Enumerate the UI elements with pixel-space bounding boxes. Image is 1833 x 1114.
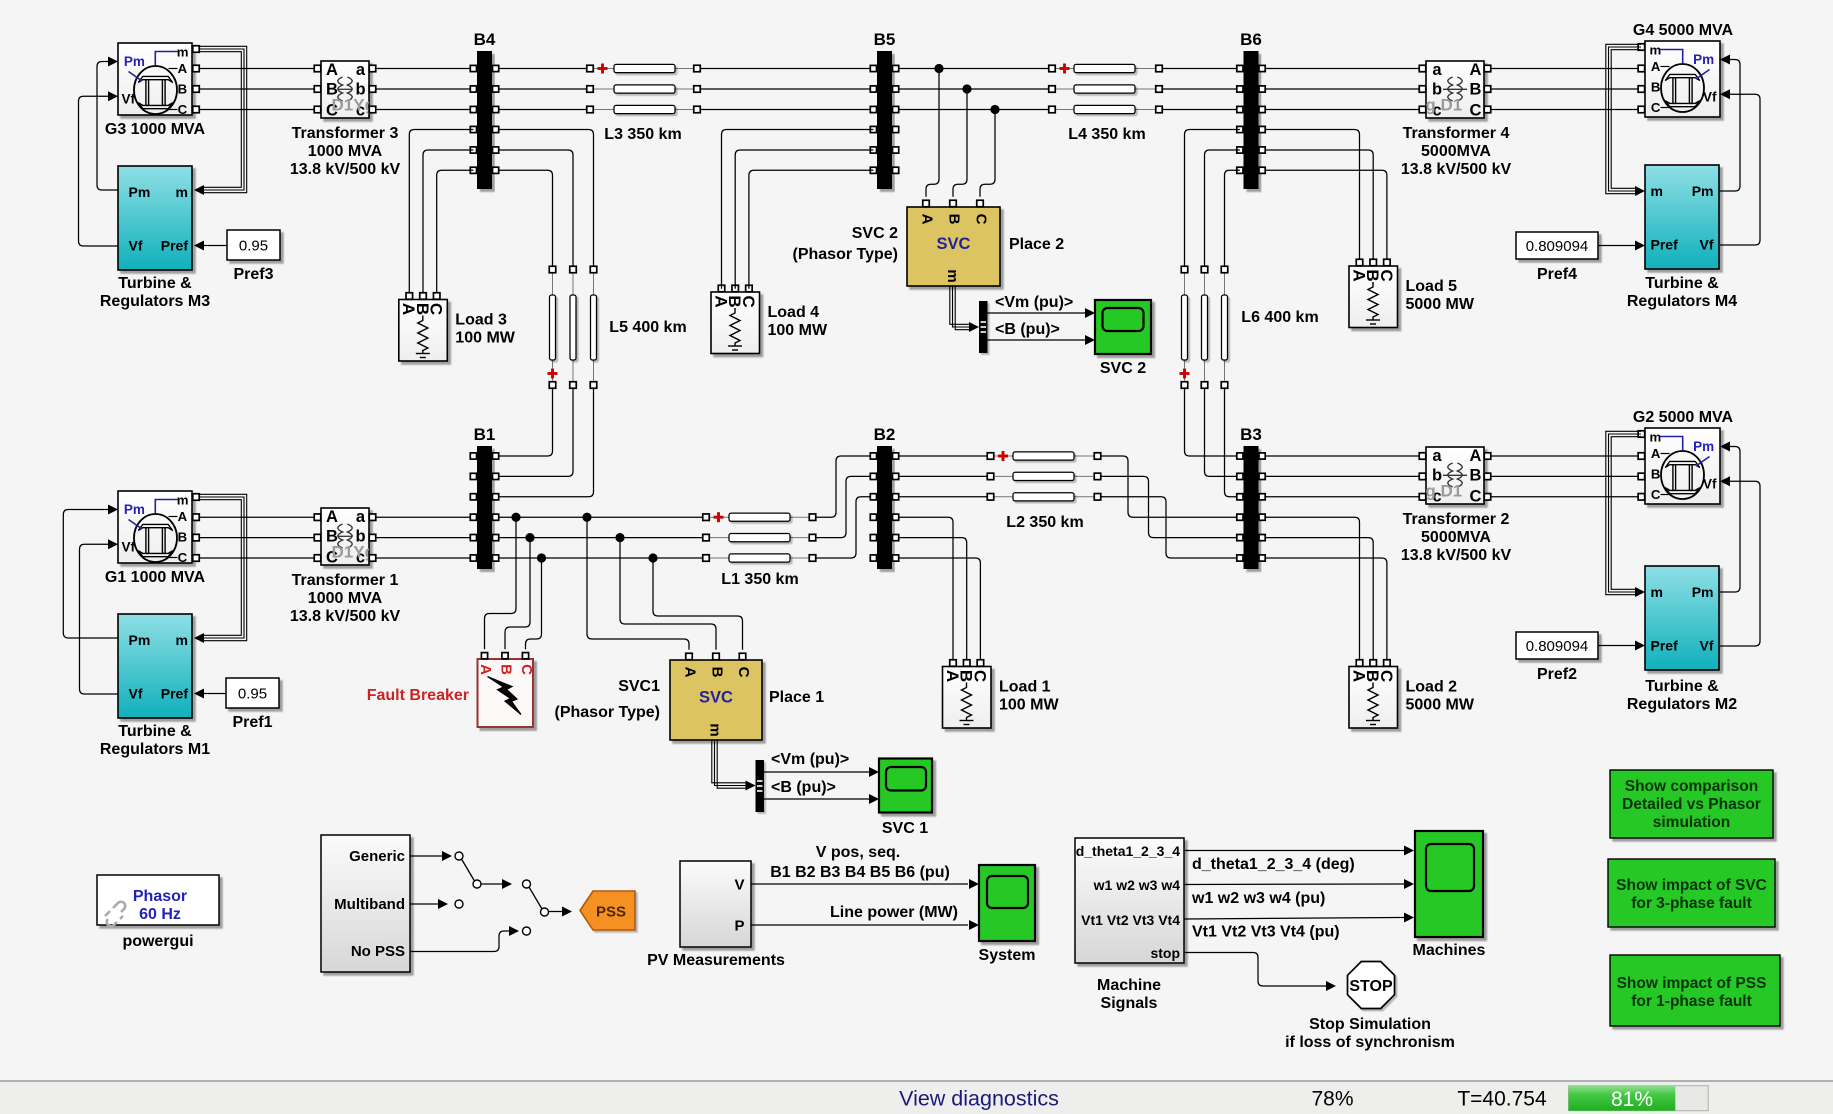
svg-text:B: B	[946, 214, 963, 225]
svg-text:Detailed vs Phasor: Detailed vs Phasor	[1622, 796, 1761, 813]
svg-text:No PSS: No PSS	[351, 943, 405, 960]
svg-text:A: A	[1470, 61, 1482, 79]
wire B3 to Load 2 B	[1265, 538, 1373, 660]
wire B6 to L6 col3	[1225, 170, 1240, 266]
svg-text:A: A	[1470, 447, 1482, 465]
constant Pref3	[227, 230, 280, 283]
generator G3	[118, 43, 192, 117]
svg-text:PSS: PSS	[596, 904, 626, 921]
wire B5 to Load 4 C	[749, 170, 874, 288]
wire selector to scope SVC2 Vm	[988, 312, 1087, 314]
wire B3 to T2 a	[1265, 455, 1419, 457]
svg-text:A: A	[326, 61, 338, 79]
subsystem PV Measurements	[680, 861, 751, 947]
svg-text:Regulators M3: Regulators M3	[100, 293, 210, 310]
svg-text:Regulators M2: Regulators M2	[1627, 696, 1737, 713]
svg-text:B1 B2 B3 B4 B5 B6 (pu): B1 B2 B3 B4 B5 B6 (pu)	[770, 864, 950, 881]
wire G2 m to M2 m (vector)	[1606, 431, 1641, 594]
svg-text:13.8 kV/500 kV: 13.8 kV/500 kV	[1401, 547, 1512, 564]
manual switch 2 lever	[529, 887, 542, 909]
junction SVC2 tap A	[934, 64, 943, 73]
manual switch 1 pole Generic	[455, 852, 463, 860]
bus B3	[1237, 425, 1265, 569]
svg-text:0.809094: 0.809094	[1526, 638, 1589, 655]
wire selector to scope SVC1 B	[764, 798, 870, 800]
wire T1 c to B1	[376, 557, 474, 559]
svg-text:0.809094: 0.809094	[1526, 238, 1589, 255]
wire B4 to Load 3 B	[423, 150, 473, 292]
wire B4 to L5 col2	[499, 150, 573, 266]
svg-text:Load 3: Load 3	[455, 312, 507, 329]
line L3 phase A	[587, 64, 701, 74]
svg-text:Transformer 2: Transformer 2	[1403, 511, 1510, 528]
svg-text:m: m	[944, 269, 961, 282]
wire M3 Pm to G3 Pm	[97, 62, 118, 191]
wire B5 to L4 A	[899, 68, 1049, 70]
svg-text:C: C	[1377, 269, 1396, 281]
wire L2 B to B3	[1101, 476, 1240, 537]
wire G1 m to M1 m (vector)	[199, 494, 247, 640]
wire T1 b to B1	[376, 537, 474, 539]
svg-text:Pref1: Pref1	[232, 714, 272, 731]
svg-text:Signals: Signals	[1101, 995, 1158, 1012]
svg-text:L3 350 km: L3 350 km	[604, 126, 681, 143]
wire L6 col2 to B3	[1205, 389, 1240, 477]
wire L1 C to B2	[816, 497, 874, 558]
wire B5 to Load 4 A	[722, 130, 874, 289]
wire M1 Pm to G1 Pm	[63, 510, 118, 639]
svg-text:A: A	[1651, 446, 1661, 461]
wire Generic out	[410, 855, 443, 857]
subsystem SVC1 (Phasor Type)	[670, 653, 762, 740]
button Show comparison Detailed vs Phasor simulation	[1610, 770, 1773, 838]
wire M4 Vf to G4 Vf	[1720, 94, 1760, 245]
wire L4 A to B6	[1162, 68, 1240, 70]
manual switch 1 pole Multiband	[455, 900, 463, 908]
wire L5 col1 to B1	[499, 389, 553, 457]
svg-text:B2: B2	[874, 425, 896, 444]
svg-text:Vf: Vf	[1703, 477, 1717, 492]
wire Multiband out	[410, 903, 439, 905]
line L5 phase col3	[590, 266, 597, 388]
wire B4 to L5 col3	[499, 130, 594, 267]
svg-text:Pref2: Pref2	[1537, 666, 1577, 683]
transformer Transformer 1	[321, 508, 375, 567]
svg-text:m: m	[1651, 183, 1663, 199]
svg-text:A: A	[682, 667, 699, 678]
wire B2 to L2 B	[899, 475, 988, 477]
svg-text:Multiband: Multiband	[334, 896, 405, 913]
line L1 phase C	[703, 554, 816, 562]
wire selector to scope SVC1 Vm	[764, 771, 870, 773]
svg-text:Turbine &: Turbine &	[118, 723, 192, 740]
wire L2 A to B3	[1101, 456, 1240, 517]
svg-text:G4 5000 MVA: G4 5000 MVA	[1633, 22, 1734, 39]
wire stop to STOP block	[1184, 953, 1327, 987]
svg-text:Vf: Vf	[1700, 237, 1714, 253]
svg-text:L6 400 km: L6 400 km	[1241, 309, 1318, 326]
svg-text:A: A	[178, 509, 188, 524]
wire SVC1 m to selector	[712, 740, 747, 788]
svg-text:Vf: Vf	[129, 686, 143, 702]
wire P to System scope	[751, 924, 968, 926]
progress bar 81%	[1569, 1086, 1709, 1111]
manual switch 2 pole top	[523, 880, 531, 888]
wire B2 to Load 1 B	[899, 538, 967, 660]
junction Fault Breaker tap C	[537, 553, 546, 562]
svg-text:SVC 1: SVC 1	[882, 820, 928, 837]
svg-text:C: C	[1651, 487, 1661, 502]
svg-text:m: m	[176, 632, 188, 648]
wire M2 Pm to G2 Pm	[1720, 447, 1740, 593]
bus B1	[470, 425, 498, 569]
wire B2 to Load 1 C	[899, 558, 981, 660]
svg-text:m: m	[1650, 42, 1662, 57]
junction Fault Breaker tap B	[525, 533, 534, 542]
wire B6 to T4 b	[1265, 88, 1419, 90]
wire B5 to L4 B	[899, 88, 1049, 90]
svg-text:C: C	[178, 550, 188, 565]
svg-text:Load 2: Load 2	[1406, 679, 1458, 696]
load Load 1 100 MW	[943, 660, 1060, 728]
svg-text:<B (pu)>: <B (pu)>	[771, 779, 836, 796]
transformer Transformer 4	[1414, 61, 1484, 120]
wire B6 to L6 col1	[1185, 130, 1240, 267]
svg-text:SVC 2: SVC 2	[1100, 360, 1146, 377]
svg-text:Pref3: Pref3	[233, 266, 273, 283]
wire L6 col3 to B3	[1225, 389, 1240, 497]
wire M4 Pm to G4 Pm	[1720, 60, 1740, 192]
load Load 4 100 MW	[711, 285, 828, 353]
wire T3 b to B4	[376, 88, 474, 90]
svg-text:B: B	[498, 664, 515, 675]
line L3 phase C	[587, 105, 701, 113]
wire B2 to Load 1 A	[899, 517, 953, 660]
svg-text:a: a	[356, 61, 366, 79]
svg-text:5000 MW: 5000 MW	[1406, 697, 1475, 714]
svg-text:A: A	[477, 664, 494, 675]
svg-text:SVC: SVC	[937, 235, 971, 253]
svg-text:C: C	[1377, 670, 1396, 682]
svg-text:m: m	[177, 44, 189, 59]
wire T4 C to G4	[1491, 109, 1642, 111]
svg-text:G3 1000 MVA: G3 1000 MVA	[105, 121, 206, 138]
svg-text:P: P	[734, 918, 744, 935]
bus B6	[1237, 30, 1265, 189]
wire G1 A to T1 A	[199, 516, 314, 518]
svg-text:Show comparison: Show comparison	[1625, 778, 1759, 795]
wire G3 B to T3 B	[199, 88, 314, 90]
wire B1 to L1 A	[499, 516, 703, 518]
svg-text:B: B	[1470, 467, 1482, 485]
svg-text:Place 2: Place 2	[1009, 236, 1064, 253]
wire T2 A to G2	[1491, 455, 1642, 457]
wire T4 A to G4	[1491, 68, 1642, 70]
svg-text:d_theta1_2_3_4: d_theta1_2_3_4	[1076, 843, 1181, 859]
svg-text:if loss of synchronism: if loss of synchronism	[1285, 1034, 1455, 1051]
wire B4 to L3 B	[499, 88, 587, 90]
wire B6 to Load 5 C	[1265, 170, 1387, 259]
subsystem PSS selector (Generic / Multiband / No PSS)	[321, 835, 410, 972]
svg-text:Generic: Generic	[349, 848, 405, 865]
svg-text:G1 1000 MVA: G1 1000 MVA	[105, 569, 206, 586]
svg-text:B: B	[709, 667, 726, 678]
svg-text:w1 w2 w3 w4 (pu): w1 w2 w3 w4 (pu)	[1191, 890, 1325, 907]
svg-text:B: B	[1651, 467, 1661, 482]
svg-text:Turbine &: Turbine &	[118, 275, 192, 292]
junction SVC1 tap A	[582, 513, 591, 522]
line L3 phase B	[587, 85, 701, 93]
wire B6 to Load 5 B	[1265, 150, 1373, 259]
svg-text:Fault Breaker: Fault Breaker	[367, 687, 469, 704]
wire w to Machines scope	[1184, 883, 1404, 886]
wire switch2 to PSS tag	[549, 911, 564, 913]
svg-text:Pm: Pm	[129, 632, 151, 648]
wire G3 A to T3 A	[199, 68, 314, 70]
svg-text:m: m	[176, 184, 188, 200]
subsystem Turbine & Regulators M2	[1645, 566, 1719, 670]
wire B3 to T2 c	[1265, 496, 1419, 498]
wire switch1 to switch2	[481, 883, 503, 885]
load Load 2 5000 MW	[1349, 660, 1475, 728]
svg-text:B: B	[1651, 80, 1661, 95]
wire tap A to SVC2 A	[926, 69, 939, 197]
svg-text:5000MVA: 5000MVA	[1421, 143, 1491, 160]
svg-text:Vf: Vf	[122, 540, 136, 555]
svg-text:13.8 kV/500 kV: 13.8 kV/500 kV	[290, 608, 401, 625]
svg-text:<Vm (pu)>: <Vm (pu)>	[771, 751, 849, 768]
svg-text:C: C	[735, 667, 752, 678]
wire B4 to L5 col1	[499, 170, 553, 266]
status bar	[0, 1081, 1833, 1114]
line L5 phase col2	[570, 266, 577, 388]
svg-text:A: A	[1651, 59, 1661, 74]
svg-text:Transformer 3: Transformer 3	[292, 125, 399, 142]
bus B4	[470, 30, 498, 189]
wire M3 Vf to G3 Vf	[79, 96, 119, 246]
scope System	[979, 865, 1035, 941]
svg-text:m: m	[1650, 429, 1662, 444]
scope SVC 1	[879, 759, 932, 813]
svg-text:m: m	[707, 723, 724, 736]
wire G3 m to M3 m (vector)	[199, 46, 247, 192]
svg-text:C: C	[1651, 100, 1661, 115]
svg-text:100 MW: 100 MW	[999, 697, 1059, 714]
svg-text:Machines: Machines	[1413, 942, 1486, 959]
wire tap B to Fault Breaker B	[505, 538, 530, 650]
wire Vt to Machines scope	[1184, 918, 1404, 920]
wire B4 to Load 3 C	[437, 170, 474, 292]
junction SVC1 tap B	[615, 533, 624, 542]
wire T2 B to G2	[1491, 475, 1642, 477]
svg-text:Load 1: Load 1	[999, 679, 1051, 696]
wire B2 to L2 C	[899, 496, 988, 498]
svg-text:B5: B5	[874, 30, 896, 49]
scope SVC 2	[1095, 300, 1151, 354]
svg-text:Transformer 1: Transformer 1	[292, 572, 399, 589]
svg-text:B4: B4	[474, 30, 496, 49]
svg-text:T=40.754: T=40.754	[1457, 1088, 1547, 1111]
svg-text:Pm: Pm	[129, 184, 151, 200]
svg-text:V: V	[734, 877, 744, 894]
wire B6 to Load 5 A	[1265, 130, 1359, 260]
svg-text:78%: 78%	[1311, 1088, 1353, 1111]
line L2 phase B	[987, 472, 1101, 480]
wire M1 Vf to G1 Vf	[80, 544, 119, 694]
svg-text:Show impact of SVC: Show impact of SVC	[1616, 877, 1767, 894]
svg-text:a: a	[1432, 447, 1442, 465]
wire L4 C to B6	[1162, 109, 1240, 111]
svg-text:5000 MW: 5000 MW	[1406, 296, 1475, 313]
wire B6 to T4 a	[1265, 68, 1419, 70]
wire Pref2 to M2 Pref	[1598, 645, 1636, 647]
svg-text:Pref4: Pref4	[1537, 266, 1577, 283]
stop block STOP	[1348, 962, 1395, 1009]
junction SVC1 tap C	[648, 553, 657, 562]
svg-text:A: A	[326, 508, 338, 526]
line L1 phase B	[703, 534, 816, 542]
generator G2	[1645, 428, 1720, 504]
wire B5 to Load 4 B	[735, 150, 873, 289]
svg-text:Regulators M1: Regulators M1	[100, 741, 210, 758]
wire L1 B to B2	[816, 476, 874, 537]
wire B1 to L1 B	[499, 537, 703, 539]
wire tap B to SVC1 B	[620, 538, 716, 650]
svg-text:C: C	[1470, 488, 1482, 506]
svg-text:Load 4: Load 4	[768, 304, 820, 321]
svg-text:Pm: Pm	[1693, 439, 1714, 454]
breaker Fault Breaker	[477, 653, 535, 727]
svg-text:Vf: Vf	[122, 92, 136, 107]
junction Fault Breaker tap A	[511, 513, 520, 522]
generator G1	[118, 491, 192, 565]
scope Machines	[1415, 831, 1483, 937]
svg-text:C: C	[970, 670, 989, 682]
wire tap C to SVC1 C	[653, 558, 743, 650]
svg-text:B: B	[178, 82, 188, 97]
wire B4 to L3 C	[499, 109, 587, 111]
svg-text:B1: B1	[474, 425, 496, 444]
svg-text:C: C	[427, 303, 446, 315]
wire L6 col1 to B3	[1185, 389, 1240, 457]
svg-text:<Vm (pu)>: <Vm (pu)>	[995, 294, 1073, 311]
bus B5	[870, 30, 898, 189]
line L4 phase C	[1049, 105, 1163, 113]
wire L4 B to B6	[1162, 88, 1240, 90]
wire G4 m to M4 m (vector)	[1606, 44, 1641, 193]
svg-text:100 MW: 100 MW	[455, 330, 515, 347]
wire B4 to Load 3 A	[409, 130, 473, 293]
svg-text:Phasor: Phasor	[133, 888, 187, 905]
manual switch 1 lever	[462, 859, 475, 881]
line L4 phase B	[1049, 85, 1163, 93]
junction SVC2 tap B	[962, 84, 971, 93]
svg-text:C: C	[973, 214, 990, 225]
svg-text:A: A	[919, 214, 936, 225]
svg-text:stop: stop	[1150, 945, 1180, 961]
svg-text:Pm: Pm	[1692, 584, 1714, 600]
wire G3 C to T3 C	[199, 109, 314, 111]
subsystem Turbine & Regulators M4	[1645, 165, 1719, 269]
constant Pref1	[226, 678, 279, 731]
svg-text:1000 MVA: 1000 MVA	[308, 590, 383, 607]
svg-text:<B (pu)>: <B (pu)>	[995, 321, 1060, 338]
svg-text:Transformer 4: Transformer 4	[1403, 125, 1510, 142]
wire T1 a to B1	[376, 516, 474, 518]
wire B6 to L6 col2	[1205, 150, 1240, 266]
svg-text:Show impact of PSS: Show impact of PSS	[1617, 975, 1767, 992]
wire B3 to Load 2 A	[1265, 517, 1359, 660]
transformer Transformer 2	[1414, 447, 1484, 506]
svg-text:L4 350 km: L4 350 km	[1068, 126, 1145, 143]
svg-text:Pref: Pref	[1651, 638, 1679, 654]
svg-text:SVC1: SVC1	[618, 678, 660, 695]
wire No PSS out	[410, 931, 510, 952]
wire d_theta to Machines scope	[1184, 850, 1404, 852]
bus selector SVC1	[756, 760, 765, 812]
wire Pref1 to M1 Pref	[203, 693, 226, 695]
bus selector SVC2	[979, 301, 988, 353]
wire T3 a to B4	[376, 68, 474, 70]
svg-text:60 Hz: 60 Hz	[139, 906, 181, 923]
subsystem Turbine & Regulators M3	[118, 166, 192, 270]
wire T4 B to G4	[1491, 88, 1642, 90]
svg-text:a: a	[356, 508, 366, 526]
svg-text:Pref: Pref	[161, 686, 189, 702]
manual switch 2 pole No PSS	[523, 927, 531, 935]
svg-text:L1 350 km: L1 350 km	[721, 571, 798, 588]
svg-text:Vt1 Vt2 Vt3 Vt4: Vt1 Vt2 Vt3 Vt4	[1081, 912, 1180, 928]
wire tap C to SVC2 C	[980, 110, 995, 197]
wire B3 to Load 2 C	[1265, 558, 1387, 660]
svg-text:81%: 81%	[1611, 1088, 1653, 1111]
wire tap A to SVC1 A	[587, 517, 689, 650]
wire T2 C to G2	[1491, 496, 1642, 498]
button Show impact of SVC for 3-phase fault	[1608, 859, 1775, 927]
svg-text:Pref: Pref	[161, 238, 189, 254]
svg-text:(Phasor Type): (Phasor Type)	[793, 246, 899, 263]
svg-text:B3: B3	[1240, 425, 1262, 444]
wire Pref4 to M4 Pref	[1598, 245, 1636, 247]
svg-text:View diagnostics: View diagnostics	[899, 1087, 1059, 1111]
line L5 phase col1	[548, 266, 558, 388]
svg-text:Pm: Pm	[1693, 52, 1714, 67]
wire tap A to Fault Breaker A	[485, 517, 517, 649]
svg-text:for 1-phase fault: for 1-phase fault	[1631, 993, 1752, 1010]
svg-text:C: C	[178, 102, 188, 117]
svg-text:Place 1: Place 1	[769, 689, 824, 706]
line L1 phase A	[703, 512, 816, 522]
line L4 phase A	[1049, 64, 1163, 74]
svg-text:System: System	[979, 947, 1036, 964]
constant Pref2	[1516, 632, 1598, 683]
load Load 3 100 MW	[399, 293, 516, 361]
svg-text:G2 5000 MVA: G2 5000 MVA	[1633, 409, 1734, 426]
load Load 5 5000 MW	[1349, 259, 1475, 327]
svg-text:0.95: 0.95	[238, 685, 267, 702]
constant Pref4	[1516, 232, 1598, 283]
button Show impact of PSS for 1-phase fault	[1610, 955, 1780, 1026]
svg-text:Vf: Vf	[1703, 90, 1717, 105]
svg-text:0.95: 0.95	[239, 237, 268, 254]
svg-text:Load 5: Load 5	[1406, 278, 1458, 295]
svg-text:Turbine &: Turbine &	[1645, 678, 1719, 695]
svg-text:13.8 kV/500 kV: 13.8 kV/500 kV	[290, 161, 401, 178]
svg-text:SVC 2: SVC 2	[852, 225, 898, 242]
svg-text:simulation: simulation	[1653, 814, 1731, 831]
goto tag PSS	[580, 891, 635, 930]
transformer Transformer 3	[321, 61, 375, 120]
